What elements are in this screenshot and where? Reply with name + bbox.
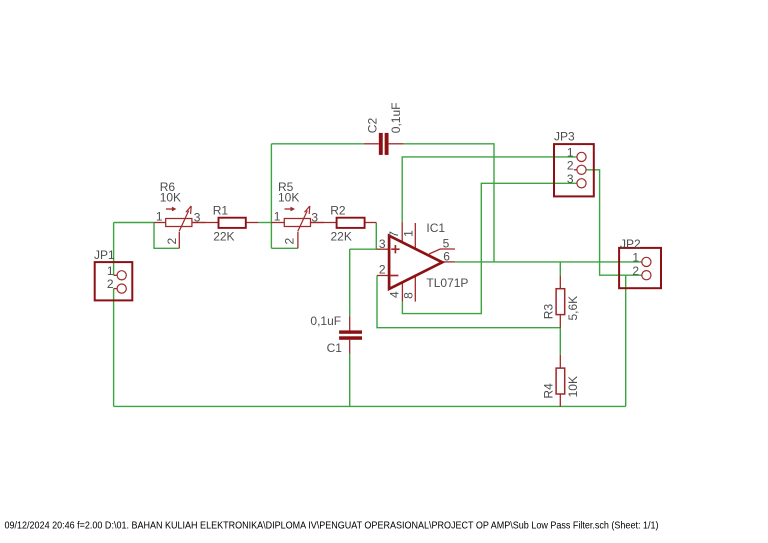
- svg-text:R4: R4: [541, 383, 555, 399]
- wire red lead R3 pin2: [559, 315, 561, 328]
- wire node to C2 left: [271, 143, 363, 145]
- wire red lead C1 pin2: [349, 340, 351, 354]
- wire red stub JP1 pin2: [114, 288, 118, 290]
- wire R1 to R5 node: [258, 222, 271, 224]
- connector JP1 pin1 circle: [117, 271, 126, 280]
- svg-text:8: 8: [402, 292, 416, 299]
- svg-text:22K: 22K: [213, 229, 234, 243]
- wire R6 pin2 loop: [154, 223, 179, 249]
- potentiometer R6: [154, 206, 206, 248]
- wire red lead R3 pin1: [559, 275, 561, 288]
- svg-text:6: 6: [443, 250, 450, 264]
- svg-text:JP1: JP1: [94, 248, 115, 262]
- op-amp U1 pin6 output stub: [442, 261, 455, 263]
- svg-text:R2: R2: [330, 204, 346, 218]
- op-amp U1 pin7 stub: [401, 222, 403, 243]
- svg-text:3: 3: [194, 210, 201, 224]
- op-amp IC1 triangle: [389, 236, 442, 289]
- svg-text:1: 1: [402, 230, 416, 237]
- wire C2 left vertical through R5 node: [270, 144, 272, 249]
- svg-text:2: 2: [107, 277, 114, 291]
- svg-text:2: 2: [165, 238, 179, 245]
- capacitor C2 plates: [379, 133, 389, 155]
- svg-text:1: 1: [274, 210, 281, 224]
- op-amp U1 pin8 stub: [414, 276, 416, 301]
- connector JP3 pin2 circle: [577, 165, 586, 174]
- wire C2 right to output: [404, 144, 494, 262]
- svg-text:10K: 10K: [278, 190, 299, 204]
- svg-text:IC1: IC1: [426, 221, 445, 235]
- wire C1 top: [349, 249, 351, 316]
- connector JP2 box: [619, 248, 661, 288]
- wire red lead R2 pin2: [365, 222, 377, 224]
- svg-text:7: 7: [387, 231, 401, 238]
- svg-text:2: 2: [567, 158, 574, 172]
- svg-text:R1: R1: [213, 204, 229, 218]
- wire red lead R1 pin2: [246, 222, 258, 224]
- connector JP2 pin1 circle: [642, 257, 651, 266]
- wire JP1 pin2 to bottom rail: [113, 289, 115, 407]
- svg-text:R3: R3: [541, 304, 555, 320]
- svg-text:2: 2: [379, 263, 386, 277]
- wire R5 pin2 loop: [271, 247, 298, 249]
- svg-text:C2: C2: [365, 118, 379, 134]
- op-amp U1 pin5 stub: [429, 249, 455, 254]
- svg-text:JP3: JP3: [554, 130, 575, 144]
- wire JP2 pin2 branch to rail: [625, 275, 627, 406]
- connector JP1 pin2 circle: [117, 284, 126, 293]
- wire bottom ground rail: [114, 405, 626, 407]
- svg-text:1: 1: [107, 264, 114, 278]
- svg-text:JP2: JP2: [620, 237, 641, 251]
- svg-text:22K: 22K: [331, 229, 352, 243]
- svg-text:10K: 10K: [160, 190, 181, 204]
- svg-text:1: 1: [632, 251, 639, 265]
- svg-text:3: 3: [311, 210, 318, 224]
- wire red lead R4 pin2: [559, 394, 561, 407]
- svg-text:0,1uF: 0,1uF: [389, 103, 403, 134]
- op-amp IC1 minus mark: [390, 275, 399, 277]
- svg-text:TL071P: TL071P: [426, 276, 468, 290]
- op-amp U1 pin4 stub: [401, 283, 403, 302]
- wire red lead C2 pin1: [364, 143, 379, 145]
- op-amp U1 pin1 stub: [414, 223, 416, 249]
- wire red lead C1 pin1: [349, 316, 351, 330]
- resistor R1 body: [219, 218, 246, 228]
- op-amp U1 pin2 stub: [377, 275, 389, 277]
- op-amp IC1 plus mark: [391, 245, 399, 253]
- connector JP3 pin3 circle: [577, 179, 586, 188]
- connector JP3 box: [554, 144, 594, 196]
- wire red stub JP1 pin1: [114, 274, 118, 276]
- wire R3 R4 junction: [559, 328, 561, 355]
- svg-text:3: 3: [379, 237, 386, 251]
- wire red lead R6 pin3 to R1 pin1: [192, 222, 219, 224]
- wire red stub JP3 pin2: [574, 169, 577, 171]
- svg-text:0,1uF: 0,1uF: [310, 314, 341, 328]
- svg-text:1: 1: [156, 210, 163, 224]
- svg-text:2: 2: [632, 264, 639, 278]
- svg-text:2: 2: [283, 238, 297, 245]
- wire R2 down to pin3: [375, 223, 377, 250]
- svg-text:5,6K: 5,6K: [566, 296, 580, 321]
- svg-text:3: 3: [567, 172, 574, 186]
- wire JP1 pin1 vertical: [113, 223, 115, 276]
- wire red lead R5 pin3 to R2 pin1: [311, 222, 337, 224]
- svg-text:1: 1: [567, 146, 574, 160]
- connector JP3 pin1 circle: [577, 152, 586, 161]
- wire pin3 node horizontal: [350, 248, 377, 250]
- connector JP2 pin2 circle: [642, 271, 651, 280]
- svg-text:5: 5: [443, 237, 450, 251]
- wire JP3 pin2 to JP2 pin2: [586, 170, 641, 275]
- capacitor C1 plates: [339, 330, 362, 339]
- potentiometer R5: [271, 206, 324, 248]
- resistor R2 body: [337, 218, 365, 228]
- wire C1 bottom to rail: [349, 354, 351, 407]
- svg-text:10K: 10K: [566, 376, 580, 397]
- svg-text:C1: C1: [327, 341, 343, 355]
- resistor R3 body: [556, 289, 565, 315]
- connector JP1 box: [95, 262, 133, 300]
- wire JP3 pin3 to IC pin4: [402, 183, 576, 313]
- wire JP1 pin1 to R6 pin1 horizontal: [114, 222, 154, 224]
- wire feedback pin2 down: [377, 276, 560, 328]
- svg-text:4: 4: [387, 291, 401, 298]
- wire red lead R4 pin1: [559, 355, 561, 368]
- resistor R4 body: [556, 368, 565, 394]
- svg-text:09/12/2024 20:46 f=2.00 D:\0: 09/12/2024 20:46 f=2.00 D:\01. BAHAN KUL…: [5, 520, 659, 531]
- wire output net: [455, 261, 642, 263]
- wire JP3 pin1 to IC pin7: [402, 157, 576, 222]
- op-amp U1 pin3 stub: [376, 248, 389, 250]
- wire red lead C2 pin2: [389, 143, 404, 145]
- wire output to R3 top: [559, 262, 561, 276]
